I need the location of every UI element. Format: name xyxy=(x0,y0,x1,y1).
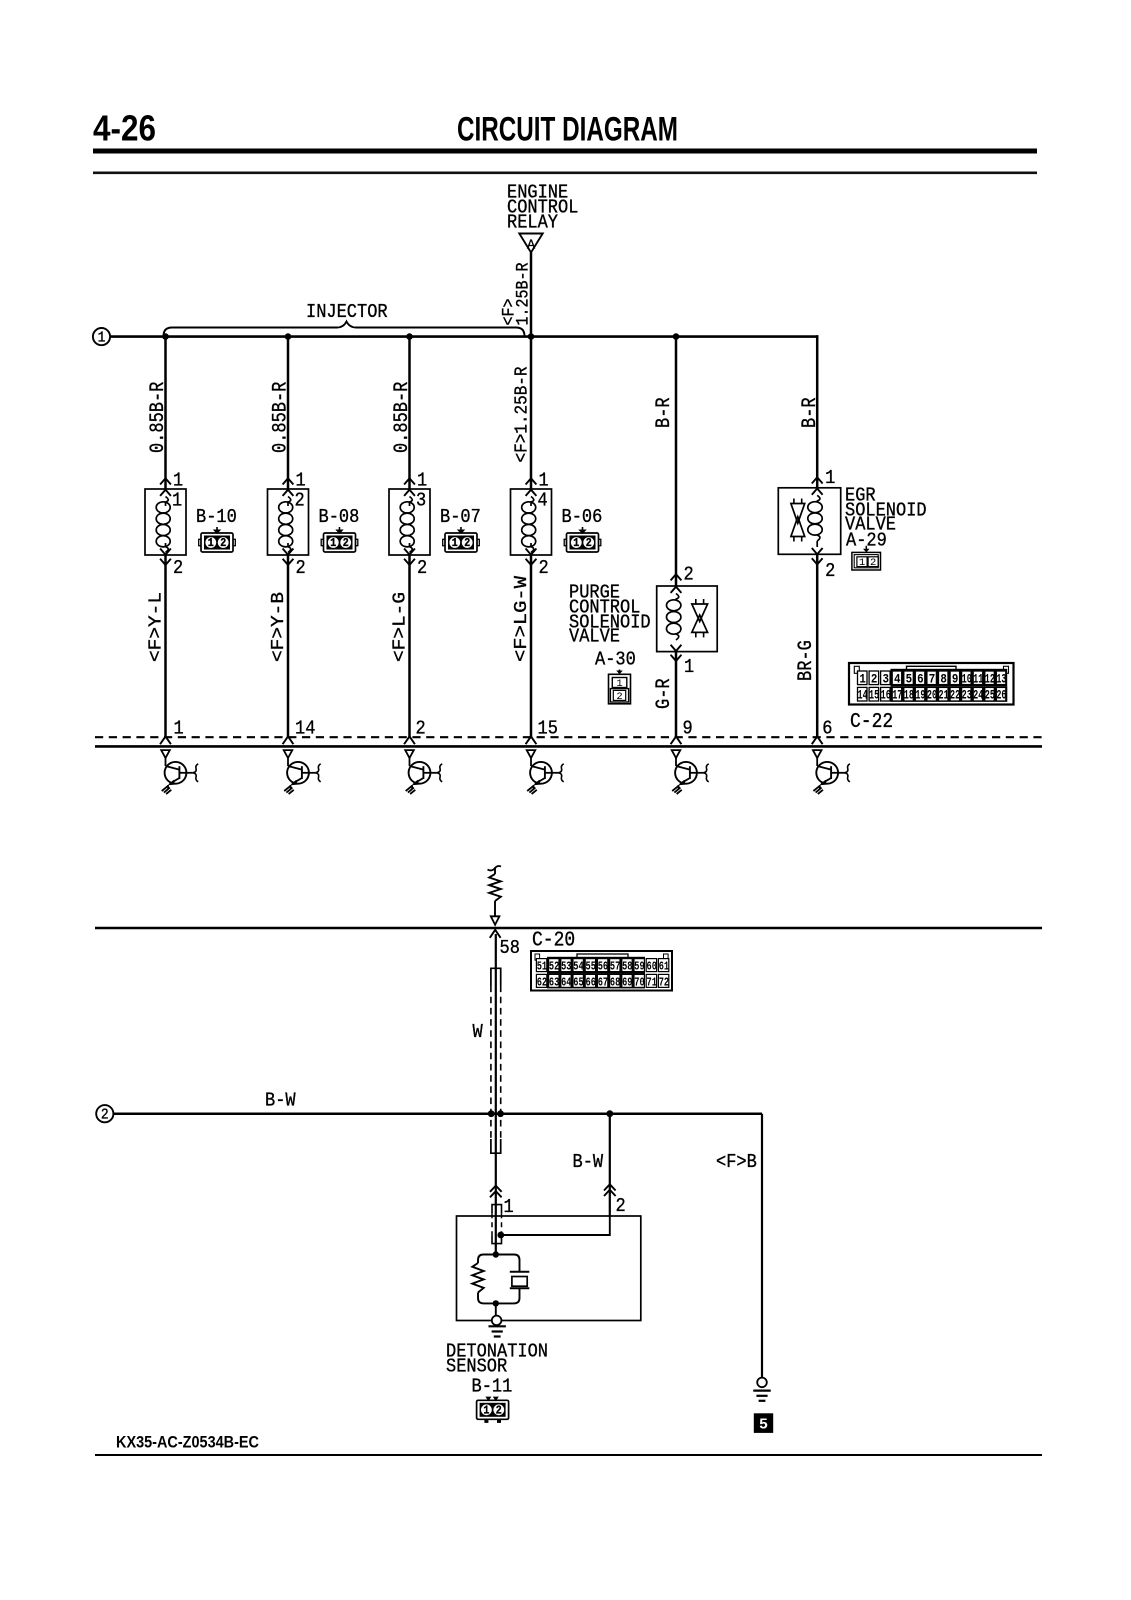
svg-text:64: 64 xyxy=(561,975,571,989)
svg-text:2: 2 xyxy=(464,538,470,551)
svg-text:26: 26 xyxy=(996,689,1006,703)
svg-text:BR-G: BR-G xyxy=(795,640,818,681)
svg-text:9: 9 xyxy=(683,718,693,740)
connector C-22 xyxy=(849,663,1014,705)
pin entry triangle at column 165.5 xyxy=(161,750,170,758)
transistor at column 288.0 xyxy=(287,758,289,766)
svg-text:2: 2 xyxy=(416,718,426,740)
purge valve symbol xyxy=(695,599,697,604)
junction at x=409.5 xyxy=(406,333,413,340)
svg-text:1: 1 xyxy=(859,672,866,686)
svg-text:2: 2 xyxy=(871,672,878,686)
relay source triangle A xyxy=(519,234,542,253)
transistor at column 676.0 xyxy=(675,758,677,766)
injector B-08 coil xyxy=(288,497,291,503)
sensor piezo element xyxy=(510,1271,530,1273)
svg-text:2: 2 xyxy=(296,557,306,579)
ECU pin 2 entry xyxy=(404,736,415,744)
bus corner to EGR wire, label B-R xyxy=(816,335,819,488)
connector icon A-29 xyxy=(865,546,867,549)
injector B-10 box xyxy=(145,489,186,555)
svg-text:7: 7 xyxy=(929,672,936,686)
pin 1 marker xyxy=(526,478,537,484)
svg-text:12: 12 xyxy=(985,672,995,686)
svg-text:B-11: B-11 xyxy=(472,1375,513,1397)
svg-text:71: 71 xyxy=(647,975,657,989)
svg-text:2: 2 xyxy=(173,557,183,579)
ECU pin 9 entry xyxy=(671,736,682,744)
svg-text:G-R: G-R xyxy=(653,678,676,709)
junction dots at shield crossing xyxy=(488,1110,495,1117)
pin 2 marker xyxy=(283,559,294,565)
svg-text:2: 2 xyxy=(417,557,427,579)
wire bus to purge valve, label B-R xyxy=(675,337,678,586)
ECU dashed boundary line xyxy=(95,736,1042,738)
chassis ground at column 165.5 xyxy=(162,786,168,791)
svg-text:<F>LG-W: <F>LG-W xyxy=(511,575,533,662)
svg-text:10: 10 xyxy=(962,672,972,686)
svg-text:B-08: B-08 xyxy=(319,506,360,528)
svg-text:3: 3 xyxy=(882,672,889,686)
svg-text:1: 1 xyxy=(825,467,835,489)
pin entry triangle at column 531.0 xyxy=(527,750,536,758)
injector B-10 coil xyxy=(165,497,168,503)
connector icon A-30 xyxy=(619,670,621,674)
pin 1 marker xyxy=(404,478,415,484)
connector icon B-08 xyxy=(321,539,323,545)
svg-text:63: 63 xyxy=(549,975,559,989)
pin 2 marker xyxy=(526,559,537,565)
wire relay to bus, label <F>1.25B-R xyxy=(530,253,533,337)
svg-text:59: 59 xyxy=(634,960,644,974)
svg-text:1: 1 xyxy=(98,330,106,347)
svg-text:15: 15 xyxy=(869,689,879,703)
chassis ground at column 288.0 xyxy=(284,786,290,791)
chassis ground at column 531.0 xyxy=(527,786,533,791)
wire injector B-06 to ECU xyxy=(530,555,533,737)
svg-text:C-20: C-20 xyxy=(532,928,575,952)
svg-text:1: 1 xyxy=(483,1405,489,1418)
svg-text:B-R: B-R xyxy=(653,397,676,428)
svg-text:2: 2 xyxy=(496,1405,502,1418)
svg-text:<F>B: <F>B xyxy=(716,1151,757,1173)
sensor pin 1 markers xyxy=(490,1186,502,1192)
svg-text:61: 61 xyxy=(659,960,669,974)
svg-text:A: A xyxy=(527,239,536,254)
svg-text:8: 8 xyxy=(940,672,947,686)
ECU pin 15 entry xyxy=(526,736,537,744)
ECU pin 6 entry xyxy=(812,736,823,744)
chassis ground at column 676.0 xyxy=(672,786,678,791)
svg-text:A-30: A-30 xyxy=(595,648,636,670)
wire EGR to ECU, label BR-G xyxy=(816,554,819,737)
svg-text:2: 2 xyxy=(101,1107,109,1124)
svg-text:C-22: C-22 xyxy=(850,710,893,734)
pin 2 marker xyxy=(160,559,171,565)
svg-text:<F>L-G: <F>L-G xyxy=(389,592,411,662)
header thick rule xyxy=(93,149,1037,154)
svg-text:72: 72 xyxy=(659,975,669,989)
connector icon B-07 xyxy=(443,539,445,545)
svg-text:9: 9 xyxy=(952,672,959,686)
pin entry triangle at column 288.0 xyxy=(284,750,293,758)
wire injector B-10 to ECU xyxy=(164,555,167,737)
sensor internal node top xyxy=(493,1251,499,1257)
svg-text:2: 2 xyxy=(586,538,592,551)
chassis ground at column 817.2 xyxy=(813,786,819,791)
EGR solenoid valve A-29 box xyxy=(778,488,840,555)
svg-text:65: 65 xyxy=(573,975,583,989)
transistor at column 531.0 xyxy=(530,758,532,766)
svg-text:3: 3 xyxy=(416,489,426,511)
ECU pin 14 entry xyxy=(283,736,294,744)
svg-text:6: 6 xyxy=(917,672,924,686)
pin entry triangle at column 817.2 xyxy=(813,750,822,758)
svg-text:B-R: B-R xyxy=(799,397,822,428)
svg-text:19: 19 xyxy=(915,689,925,703)
sensor internal node bottom xyxy=(493,1300,499,1306)
detonation sensor box xyxy=(457,1216,641,1321)
injector B-08 box xyxy=(268,489,309,555)
pin entry triangle at column 676.0 xyxy=(672,750,681,758)
resistor inside ECU above bus 2 xyxy=(488,866,502,870)
wire bus to injector B-06 xyxy=(530,337,533,489)
svg-text:4: 4 xyxy=(538,489,548,511)
svg-text:24: 24 xyxy=(973,689,984,703)
svg-text:52: 52 xyxy=(549,960,559,974)
purge control solenoid valve A-30 box xyxy=(657,586,718,652)
transistor at column 165.5 xyxy=(165,758,167,766)
svg-text:<F>1.25B-R: <F>1.25B-R xyxy=(511,366,533,462)
svg-text:CIRCUIT DIAGRAM: CIRCUIT DIAGRAM xyxy=(457,111,678,149)
svg-text:68: 68 xyxy=(610,975,620,989)
junction to sensor pin 2 branch xyxy=(606,1110,613,1117)
pin 2 marker purge xyxy=(671,574,682,580)
svg-text:1: 1 xyxy=(452,538,458,551)
svg-text:25: 25 xyxy=(985,689,995,703)
svg-text:20: 20 xyxy=(927,689,937,703)
svg-text:B-10: B-10 xyxy=(196,506,237,528)
svg-text:16: 16 xyxy=(881,689,891,703)
svg-text:B-06: B-06 xyxy=(562,506,603,528)
junction at x=676.0 xyxy=(673,333,680,340)
sensor internal resistor xyxy=(472,1263,483,1293)
junction at x=288.0 xyxy=(285,333,292,340)
svg-text:RELAY: RELAY xyxy=(507,211,558,233)
svg-text:KX35-AC-Z0534B-EC: KX35-AC-Z0534B-EC xyxy=(116,1433,259,1452)
pin 2 marker xyxy=(404,559,415,565)
svg-text:0.85B-R: 0.85B-R xyxy=(391,382,414,453)
svg-text:2: 2 xyxy=(684,563,694,585)
svg-text:55: 55 xyxy=(586,960,596,974)
connector C-20 xyxy=(531,951,672,991)
svg-text:62: 62 xyxy=(537,975,547,989)
svg-text:1: 1 xyxy=(208,538,214,551)
chassis ground at column 409.5 xyxy=(406,786,412,791)
svg-text:VALVE: VALVE xyxy=(569,625,620,647)
wire injector B-08 to ECU xyxy=(287,555,290,737)
junction at x=165.5 xyxy=(162,333,169,340)
pin 1 marker xyxy=(160,478,171,484)
wire purge to ECU, label G-R xyxy=(675,652,678,738)
svg-text:1: 1 xyxy=(684,656,694,678)
footer rule xyxy=(95,1454,1042,1456)
svg-text:2: 2 xyxy=(616,691,622,703)
earth ground for <F>B xyxy=(757,1378,767,1388)
svg-text:B-W: B-W xyxy=(573,1151,604,1173)
svg-text:1: 1 xyxy=(172,489,182,511)
svg-text:1: 1 xyxy=(174,718,184,740)
wire bus to injector B-07 xyxy=(408,337,411,489)
svg-text:58: 58 xyxy=(622,960,632,974)
wire <F>B to ground xyxy=(761,1114,763,1378)
svg-text:51: 51 xyxy=(537,960,547,974)
svg-text:57: 57 xyxy=(610,960,620,974)
node 2 circled xyxy=(96,1105,113,1122)
EGR valve symbol xyxy=(793,499,795,504)
svg-text:5: 5 xyxy=(906,672,913,686)
header thin rule xyxy=(93,172,1037,175)
connector icon B-06 xyxy=(564,539,566,545)
pin 2 marker EGR xyxy=(812,558,823,564)
wire injector B-07 to ECU xyxy=(408,555,411,737)
injector B-06 box xyxy=(511,489,552,555)
ECU pin 1 entry xyxy=(160,736,171,744)
svg-text:54: 54 xyxy=(573,960,583,974)
svg-text:15: 15 xyxy=(538,718,558,740)
svg-text:69: 69 xyxy=(622,975,632,989)
bus wire from node 1 across columns xyxy=(110,335,818,338)
shield stub into sensor xyxy=(492,1205,502,1214)
svg-text:2: 2 xyxy=(616,1195,626,1217)
svg-text:B-W: B-W xyxy=(265,1089,296,1111)
svg-text:21: 21 xyxy=(938,689,948,703)
svg-text:53: 53 xyxy=(561,960,571,974)
svg-text:<F>Y-L: <F>Y-L xyxy=(145,592,167,662)
svg-text:56: 56 xyxy=(598,960,608,974)
svg-text:60: 60 xyxy=(647,960,657,974)
svg-text:70: 70 xyxy=(634,975,644,989)
pin 1 marker EGR xyxy=(812,477,823,483)
svg-text:17: 17 xyxy=(892,689,902,703)
svg-text:22: 22 xyxy=(950,689,960,703)
svg-text:2: 2 xyxy=(220,538,226,551)
svg-text:14: 14 xyxy=(857,689,868,703)
ground reference 5 (boxed) xyxy=(754,1413,773,1433)
svg-text:14: 14 xyxy=(295,718,315,740)
purge valve coil xyxy=(667,600,681,611)
wire bus to injector B-08 xyxy=(287,337,290,489)
wire bus to injector B-10 xyxy=(164,337,167,489)
svg-text:2: 2 xyxy=(343,538,349,551)
svg-text:1: 1 xyxy=(859,557,865,569)
svg-text:11: 11 xyxy=(973,672,983,686)
svg-text:2: 2 xyxy=(295,489,305,511)
svg-text:6: 6 xyxy=(822,718,832,740)
EGR coil xyxy=(808,502,822,513)
node 1 circled xyxy=(93,328,110,345)
svg-text:4: 4 xyxy=(894,672,901,686)
svg-text:1: 1 xyxy=(573,538,579,551)
svg-text:66: 66 xyxy=(586,975,596,989)
transistor at column 409.5 xyxy=(409,758,411,766)
svg-text:18: 18 xyxy=(904,689,914,703)
svg-text:13: 13 xyxy=(996,672,1006,686)
svg-text:58: 58 xyxy=(500,937,520,959)
svg-text:23: 23 xyxy=(962,689,972,703)
svg-text:5: 5 xyxy=(759,1417,768,1434)
svg-text:2: 2 xyxy=(825,560,835,582)
pin entry triangle at column 409.5 xyxy=(405,750,414,758)
injector group brace xyxy=(164,322,525,337)
pin2 internal wire joining shield xyxy=(502,1216,610,1235)
svg-text:1.25B-R: 1.25B-R xyxy=(512,262,532,325)
wire B-W to sensor pin 2 xyxy=(609,1114,611,1216)
svg-text:67: 67 xyxy=(598,975,608,989)
svg-text:1: 1 xyxy=(504,1196,514,1218)
svg-text:1: 1 xyxy=(330,538,336,551)
ECU solid line xyxy=(95,745,1042,748)
svg-text:2: 2 xyxy=(539,557,549,579)
junction at x=531.0 xyxy=(528,333,535,340)
svg-text:4-26: 4-26 xyxy=(93,108,156,149)
svg-text:B-07: B-07 xyxy=(440,506,481,528)
transistor at column 817.2 xyxy=(816,758,818,766)
svg-text:2: 2 xyxy=(870,557,876,569)
connector icon B-10 xyxy=(199,539,201,545)
cable shield xyxy=(491,968,501,985)
shielded wire core (W) xyxy=(495,934,497,1255)
injector B-07 box xyxy=(389,489,430,555)
B-W bus wire xyxy=(113,1112,762,1115)
sensor case ground xyxy=(492,1316,502,1326)
injector B-06 coil xyxy=(531,497,534,503)
bus 2 line xyxy=(95,927,1042,930)
pin 1 marker purge xyxy=(671,655,682,661)
svg-text:0.85B-R: 0.85B-R xyxy=(269,382,292,453)
svg-text:W: W xyxy=(473,1021,484,1043)
pin 58 entry xyxy=(490,930,501,938)
svg-text:<F>Y-B: <F>Y-B xyxy=(268,592,290,662)
pin 1 marker xyxy=(283,478,294,484)
injector B-07 coil xyxy=(409,497,412,503)
connector icon B-11 xyxy=(477,1400,509,1419)
svg-text:0.85B-R: 0.85B-R xyxy=(147,382,170,453)
